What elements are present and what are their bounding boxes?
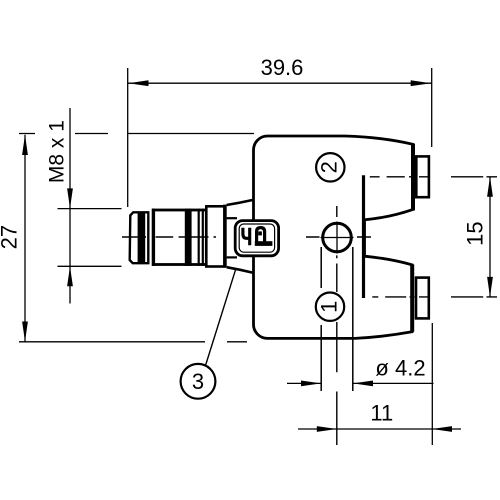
bottom port cap [416,278,429,319]
hole cross horizontal [321,237,354,239]
dimension 27 [19,134,254,342]
top port flange [411,144,415,211]
label circle 3 [181,364,216,399]
body outline [253,136,413,338]
svg-text:27: 27 [0,225,21,249]
svg-text:M8 x 1: M8 x 1 [46,120,69,183]
dimension 11 [298,323,461,445]
logo glyph left [243,228,250,245]
leader line to label 3 [206,268,237,365]
centerline top port [370,176,497,178]
strain relief cone bottom edge [227,267,253,272]
web edge between ports [362,175,365,298]
dimension 39.6 [128,68,432,207]
svg-text:ø 4.2: ø 4.2 [375,356,425,381]
centerline connector axis [122,236,371,238]
centerline hole vertical [336,206,338,445]
dimension 15 [489,177,491,297]
logo glyph right [257,228,265,243]
svg-text:39.6: 39.6 [261,55,304,80]
M8 plug o-ring bar [138,212,146,264]
dimension M8 x 1 [58,108,122,304]
top port cap [416,156,429,197]
M8 collar section [206,206,224,266]
clamp block bottom edge [227,256,237,258]
hole edge extension right [352,247,354,391]
svg-text:2: 2 [317,161,342,173]
M8 plug nut body [153,210,206,265]
centerline bottom port [372,296,497,298]
M8 cone flange [223,205,227,268]
hole cross vertical [336,222,338,254]
strain relief cone top edge [227,200,253,205]
dimension dia 4.2 [287,382,434,384]
svg-text:11: 11 [370,401,393,426]
logo badge outer frame [235,221,278,256]
M8 nut knurl bar [185,209,192,266]
bottom port flange [410,264,414,331]
logo glyph foot [255,241,273,246]
M8 plug tip [130,212,149,263]
mounting hole circle [323,223,352,252]
label circle 1 [316,293,344,321]
svg-text:1: 1 [316,301,341,313]
label circle 2 [316,153,344,181]
clamp block top edge [227,217,237,219]
hole edge extension left [320,247,322,391]
svg-text:3: 3 [192,369,204,394]
M8 nut ring lines [198,209,200,266]
svg-text:15: 15 [463,221,488,245]
logo badge inner frame [239,224,274,252]
